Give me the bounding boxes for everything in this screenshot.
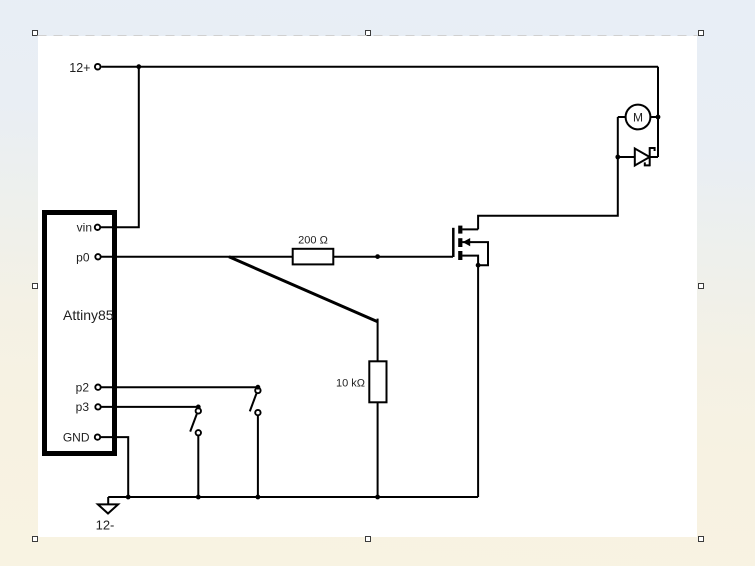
ground rail — [108, 496, 478, 498]
wire drain to motor — [478, 157, 618, 229]
wire p0 to gate — [101, 256, 453, 258]
transistor Q1 n-mosfet — [453, 226, 488, 266]
svg-text:200 Ω: 200 Ω — [298, 235, 328, 247]
terminal 12+ — [69, 61, 100, 75]
pin vin — [95, 225, 100, 230]
wire top rail — [101, 66, 658, 68]
pin p0 — [95, 254, 100, 259]
junction on p0 wire — [375, 254, 380, 259]
switch S1 — [250, 385, 261, 415]
diode D1 schottky — [618, 147, 658, 166]
svg-text:p0: p0 — [76, 251, 90, 265]
svg-text:p2: p2 — [76, 381, 90, 395]
svg-text:GND: GND — [63, 430, 90, 444]
svg-text:10 kΩ: 10 kΩ — [336, 378, 365, 390]
wire 10k bottom down — [377, 402, 379, 497]
wire to 10k top — [377, 319, 379, 362]
ground symbol — [96, 497, 118, 532]
wire GND pin down — [101, 437, 129, 497]
pin p3 — [95, 404, 100, 409]
svg-text:12-: 12- — [96, 517, 115, 532]
junction diode anode — [615, 155, 620, 160]
wire switch S1 down — [257, 415, 259, 497]
wire p2 to switch — [101, 386, 258, 388]
junction motor right — [656, 115, 661, 120]
svg-text:12+: 12+ — [69, 61, 90, 75]
junction rail S2 — [196, 495, 201, 500]
svg-text:Attiny85: Attiny85 — [63, 307, 114, 323]
wire switch S2 down — [197, 436, 199, 498]
resistor R1 — [293, 235, 334, 265]
wire p3 to switch — [101, 406, 199, 408]
motor M1 — [618, 105, 658, 130]
switch S2 — [190, 405, 201, 436]
junction — [136, 64, 141, 69]
wire 12+ down to vin — [101, 67, 139, 228]
junction rail S1 — [256, 495, 261, 500]
junction rail 10k — [375, 495, 380, 500]
resistor R2 — [336, 361, 387, 402]
wire motor left down — [617, 117, 619, 157]
wire diagonal — [229, 257, 377, 322]
svg-text:p3: p3 — [76, 400, 90, 414]
svg-text:M: M — [633, 111, 643, 125]
IC U1 Attiny85 — [45, 213, 115, 454]
svg-text:vin: vin — [77, 221, 92, 235]
pin GND — [95, 434, 100, 439]
junction rail GND — [126, 495, 131, 500]
junction source — [476, 263, 481, 268]
wire source down — [477, 265, 479, 497]
pin p2 — [95, 385, 100, 390]
wire right down to motor — [657, 67, 659, 157]
